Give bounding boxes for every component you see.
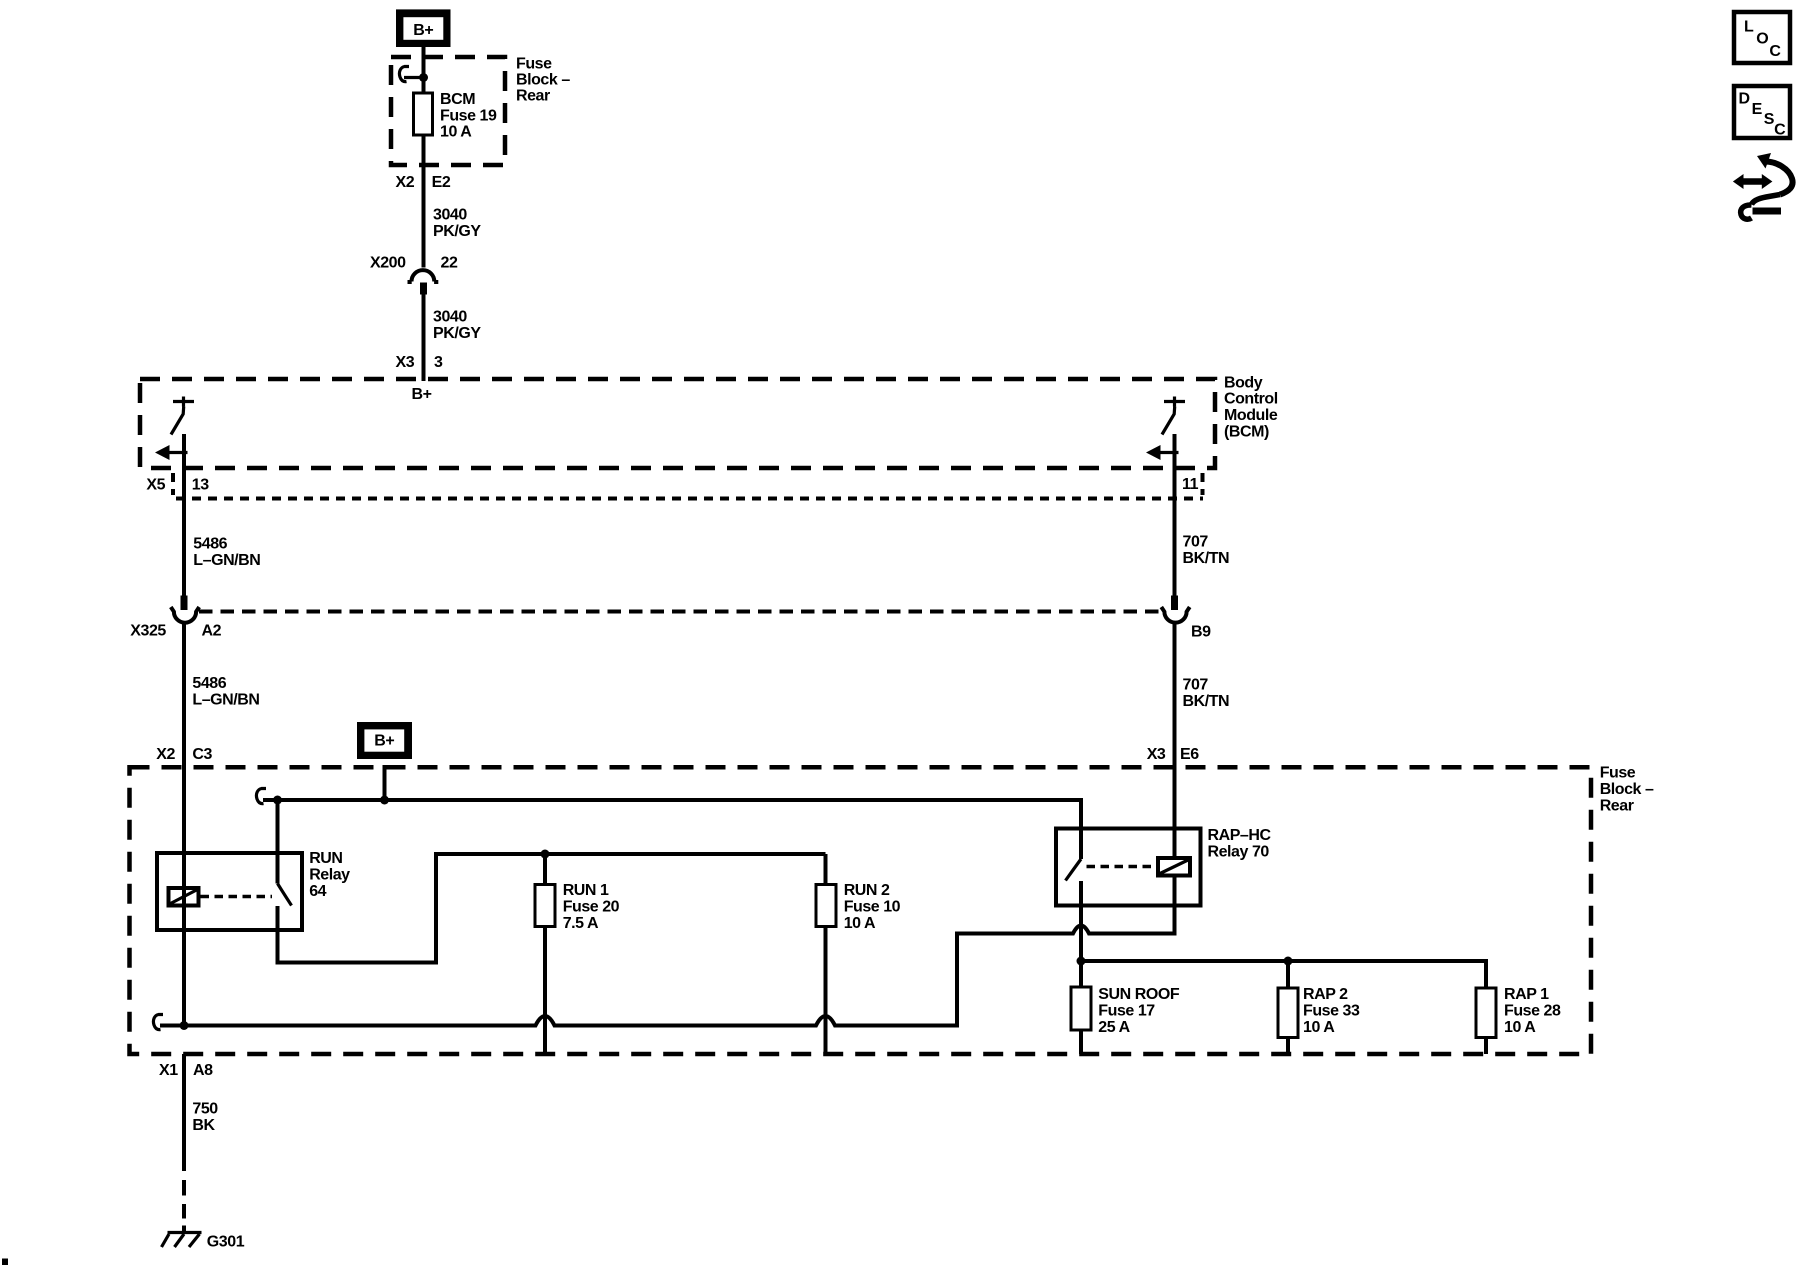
svg-text:Fuse 19: Fuse 19: [440, 107, 497, 124]
junction dot RUN1 fuse feed: [541, 850, 550, 859]
label RAP-HC Relay 70: [1208, 827, 1272, 860]
wire bus to RAP-HC relay switch: [1079, 798, 1083, 859]
junction dot RAP2 fuse feed: [1284, 957, 1293, 966]
svg-text:3040: 3040: [433, 309, 467, 326]
svg-text:13: 13: [192, 476, 209, 493]
RUN relay coil: [169, 888, 199, 906]
label X2 | C3: [156, 746, 212, 763]
svg-text:64: 64: [309, 883, 326, 900]
wire bus to RUN relay switch: [276, 800, 280, 884]
wire A2 to fuse block X2 pin C3: [182, 621, 186, 888]
svg-text:Fuse 33: Fuse 33: [1303, 1003, 1360, 1020]
in-line connector X325 pin A2 (male pin): [181, 596, 188, 611]
BCM internal driver switch (left, output 13): [171, 397, 194, 435]
wire through RUN relay coil: [182, 886, 186, 907]
label Fuse Block - Rear (right): [1600, 765, 1654, 815]
svg-text:O: O: [1756, 31, 1768, 48]
svg-text:Rear: Rear: [1600, 798, 1634, 815]
svg-text:X2: X2: [396, 174, 415, 191]
fuse RAP 1 (Fuse 28) symbol: [1476, 988, 1496, 1038]
svg-text:C: C: [1774, 122, 1786, 139]
wire RAP2 fuse output: [1286, 1038, 1290, 1055]
svg-text:E6: E6: [1180, 746, 1199, 763]
label BCM Fuse 19 10 A: [440, 91, 497, 141]
RUN relay switch blade: [278, 884, 292, 906]
svg-text:X2: X2: [156, 746, 175, 763]
wire B+ stem into fuse block: [383, 765, 387, 800]
label RAP 1 Fuse 28 10 A: [1504, 986, 1561, 1036]
RAP-HC relay 70 box: [1056, 829, 1201, 906]
wire dashed continuation to G301: [182, 1180, 186, 1232]
svg-text:A2: A2: [202, 622, 222, 639]
label X2 | E2: [396, 174, 451, 191]
svg-text:C3: C3: [192, 746, 212, 763]
RUN relay 64 box: [157, 853, 302, 930]
in-line connector X325 pin B9 (male pin): [1171, 596, 1178, 611]
svg-text:Fuse 28: Fuse 28: [1504, 1003, 1561, 1020]
svg-text:(BCM): (BCM): [1224, 424, 1269, 441]
wire label 3040 PK/GY (upper): [433, 207, 481, 240]
ground bus curl (left end): [153, 1015, 163, 1030]
wire to RUN1 fuse: [543, 854, 547, 885]
junction dot B+ stem: [380, 796, 389, 805]
in-line connector X325 socket cup (A2): [171, 607, 199, 623]
wire label 3040 PK/GY (lower): [433, 309, 481, 342]
svg-text:X5: X5: [146, 476, 165, 493]
fuse RAP 2 (Fuse 33) symbol: [1278, 988, 1298, 1038]
ground symbol G301: [162, 1233, 202, 1248]
label RUN 1 Fuse 20 7.5 A: [563, 882, 620, 932]
wire A8 to ground (750 BK): [182, 1054, 186, 1171]
nav icon LOC box: [1734, 12, 1790, 63]
current direction arrow (left BCM output): [155, 445, 188, 460]
wire B+ to BCM Fuse 19: [422, 47, 426, 93]
label X1 | A8: [159, 1062, 213, 1079]
connector X5 boundary tick (left): [171, 473, 175, 495]
svg-text:7.5 A: 7.5 A: [563, 915, 599, 932]
RAP-HC relay coil: [1158, 858, 1190, 876]
label RAP 2 Fuse 33 10 A: [1303, 986, 1360, 1036]
label Fuse Block - Rear (top): [516, 56, 570, 105]
ground bus wire with hops over RUN1/RUN2 outputs: [160, 876, 1175, 1026]
connector X5 boundary tick (right): [1201, 473, 1205, 495]
label X325 | A2: [130, 622, 221, 639]
wire to RUN2 fuse: [824, 854, 828, 885]
fuse block rear (top) dashed box: [391, 57, 505, 165]
wire to RAP2 fuse: [1286, 961, 1290, 988]
label Body Control Module (BCM): [1224, 374, 1278, 440]
wire B9 to fuse block X3 pin E6: [1173, 621, 1177, 858]
svg-text:X1: X1: [159, 1062, 178, 1079]
wire bus stub to fuse 19 node: [404, 76, 424, 79]
svg-text:Body: Body: [1224, 374, 1263, 391]
wire label 5486 L-GN/BN (upper): [193, 536, 260, 569]
svg-text:X325: X325: [130, 622, 166, 639]
svg-text:C: C: [1769, 43, 1781, 60]
connector X5 dotted line: [176, 497, 1203, 501]
svg-text:X3: X3: [396, 354, 415, 371]
wire fuse 19 to connector X2 pin E2: [422, 135, 426, 268]
label X200 | 22: [370, 255, 458, 272]
svg-text:X3: X3: [1147, 746, 1166, 763]
junction dot sunroof fuse feed: [1077, 957, 1086, 966]
junction dot RUN relay feed: [273, 796, 282, 805]
svg-text:5486: 5486: [193, 536, 227, 553]
svg-text:Fuse: Fuse: [516, 56, 552, 73]
svg-text:RAP–HC: RAP–HC: [1208, 827, 1272, 844]
fuse F19 symbol: [414, 93, 433, 135]
svg-text:RUN 2: RUN 2: [844, 882, 890, 899]
wire RUN1 fuse output: [543, 927, 547, 1055]
battery feed B+ symbol (middle): [357, 722, 412, 759]
RAP-HC relay mechanical link (dashed): [1087, 865, 1157, 869]
svg-text:E2: E2: [432, 174, 451, 191]
svg-text:11: 11: [1182, 476, 1199, 493]
svg-text:750: 750: [192, 1101, 218, 1118]
wire RUN relay coil to ground bus: [182, 906, 186, 1026]
svg-text:BK/TN: BK/TN: [1183, 693, 1230, 710]
RUN relay mechanical link (dashed): [201, 895, 273, 899]
svg-text:Fuse 17: Fuse 17: [1098, 1003, 1155, 1020]
svg-text:D: D: [1739, 91, 1750, 108]
svg-text:BK/TN: BK/TN: [1183, 550, 1230, 567]
junction dot ground bus at A8 wire: [180, 1021, 189, 1030]
svg-text:Control: Control: [1224, 391, 1278, 408]
junction dot at fuse 19 feed: [419, 73, 428, 82]
battery feed B+ symbol (top): [396, 9, 451, 47]
label SUN ROOF Fuse 17 25 A: [1098, 986, 1180, 1036]
RAP-HC relay switch blade: [1066, 859, 1082, 881]
svg-text:25 A: 25 A: [1098, 1019, 1130, 1036]
svg-text:Block –: Block –: [1600, 781, 1654, 798]
wire label 707 BK/TN (upper): [1183, 534, 1230, 567]
svg-text:Fuse: Fuse: [1600, 765, 1636, 782]
svg-text:L: L: [1744, 18, 1754, 35]
current direction arrow (right BCM output): [1146, 445, 1179, 460]
label RUN 2 Fuse 10 10 A: [844, 882, 901, 932]
svg-text:L–GN/BN: L–GN/BN: [193, 552, 260, 569]
wire label 5486 L-GN/BN (lower): [192, 675, 259, 708]
fuse RUN 2 (Fuse 10) symbol: [816, 885, 836, 927]
svg-text:BK: BK: [192, 1117, 215, 1134]
svg-text:10 A: 10 A: [1303, 1019, 1335, 1036]
label X3 | E6: [1147, 746, 1200, 763]
svg-text:22: 22: [441, 255, 458, 272]
label X3 | 3: [396, 354, 444, 371]
svg-text:10 A: 10 A: [440, 124, 472, 141]
label RUN Relay 64: [309, 850, 350, 900]
svg-text:BCM: BCM: [440, 91, 475, 108]
nav icon DESC box: [1734, 86, 1790, 139]
svg-text:707: 707: [1183, 534, 1209, 551]
svg-text:10 A: 10 A: [1504, 1019, 1536, 1036]
svg-text:A8: A8: [193, 1062, 213, 1079]
svg-text:Module: Module: [1224, 407, 1278, 424]
svg-text:G301: G301: [207, 1233, 245, 1250]
svg-text:10 A: 10 A: [844, 915, 876, 932]
svg-text:E: E: [1752, 101, 1763, 118]
wire BCM pin 13 output: [182, 434, 186, 596]
B+ distribution bus wire: [263, 798, 1081, 802]
BCM internal driver switch (right, output 11): [1162, 397, 1185, 435]
svg-text:SUN ROOF: SUN ROOF: [1098, 986, 1180, 1003]
svg-text:RAP 1: RAP 1: [1504, 986, 1549, 1003]
nav icon arrows: [1733, 153, 1793, 219]
in-line connector X200 socket arc: [408, 270, 439, 282]
svg-text:Block –: Block –: [516, 72, 570, 89]
svg-text:L–GN/BN: L–GN/BN: [192, 692, 259, 709]
svg-text:3: 3: [434, 354, 443, 371]
connector X325 dashed line: [199, 610, 1160, 614]
wire label 750 BK: [192, 1101, 218, 1134]
svg-text:B9: B9: [1191, 624, 1211, 641]
svg-text:B+: B+: [412, 386, 432, 403]
svg-text:RUN 1: RUN 1: [563, 882, 609, 899]
svg-text:5486: 5486: [192, 675, 226, 692]
svg-text:707: 707: [1183, 677, 1209, 694]
svg-text:RAP 2: RAP 2: [1303, 986, 1348, 1003]
svg-text:RUN: RUN: [309, 850, 342, 867]
svg-text:3040: 3040: [433, 207, 467, 224]
label X5 | 13: [146, 476, 209, 493]
svg-text:PK/GY: PK/GY: [433, 325, 481, 342]
fuse SUN ROOF (Fuse 17) symbol: [1071, 987, 1091, 1030]
in-line connector X325 socket cup (B9): [1161, 607, 1189, 623]
wire RAP-HC relay output: [1079, 881, 1083, 961]
fuse block rear (bottom) dashed box: [130, 767, 1592, 1054]
svg-text:Relay 70: Relay 70: [1208, 843, 1270, 860]
wire label 707 BK/TN (lower): [1183, 677, 1230, 710]
wire RAP1 fuse output: [1484, 1038, 1488, 1055]
body control module (BCM) dashed box: [140, 379, 1215, 468]
wire BCM pin 11 output: [1173, 434, 1177, 596]
wire RUN2 fuse output: [824, 927, 828, 1055]
page mark dot (bottom-left): [2, 1259, 8, 1266]
wire X200 to BCM connector X3 pin 3: [422, 295, 426, 382]
wire RUN relay output: [278, 854, 826, 963]
svg-text:Rear: Rear: [516, 88, 550, 105]
bus continuation curl (left end of B+ bus): [256, 789, 266, 804]
RAP feed wire to RAP1 fuse: [1081, 961, 1486, 988]
in-line connector X200 pin: [420, 283, 427, 295]
bus continuation curl (inside top fuse block): [399, 67, 409, 82]
wire to SUN ROOF fuse: [1079, 961, 1083, 987]
fuse RUN 1 (Fuse 20) symbol: [535, 885, 555, 927]
wire SUN ROOF fuse output: [1079, 1030, 1083, 1054]
svg-text:PK/GY: PK/GY: [433, 223, 481, 240]
svg-text:Relay: Relay: [309, 866, 350, 883]
svg-text:X200: X200: [370, 255, 406, 272]
svg-text:Fuse 20: Fuse 20: [563, 898, 620, 915]
svg-text:B+: B+: [374, 733, 394, 750]
svg-text:Fuse 10: Fuse 10: [844, 898, 901, 915]
svg-text:B+: B+: [413, 22, 433, 39]
